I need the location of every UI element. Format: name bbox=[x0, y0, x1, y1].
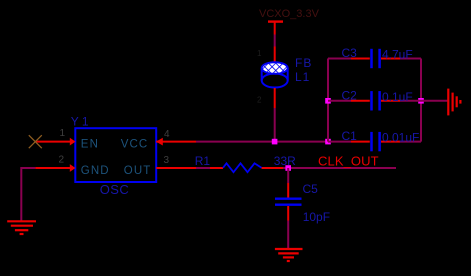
pin 1 arrow bbox=[70, 138, 76, 146]
svg-text:OSC: OSC bbox=[100, 182, 129, 197]
svg-text:VCC: VCC bbox=[121, 139, 149, 151]
wire cap left bus bbox=[327, 59, 329, 142]
svg-text:4: 4 bbox=[164, 129, 170, 140]
wire junction to C5 bbox=[287, 168, 289, 183]
power bar symbol bbox=[268, 20, 283, 22]
svg-text:CLK_OUT: CLK_OUT bbox=[318, 154, 379, 169]
svg-text:0.1uF: 0.1uF bbox=[382, 90, 413, 104]
svg-text:GND: GND bbox=[81, 165, 110, 177]
pin 1 EN bbox=[35, 141, 70, 143]
svg-text:3: 3 bbox=[164, 155, 170, 166]
wire C3 row bbox=[328, 58, 351, 60]
pin 2 GND bbox=[35, 167, 70, 169]
capacitor C2 plates bbox=[370, 91, 373, 110]
capacitor C3 plates bbox=[370, 49, 373, 68]
junction at cap bus bottom bbox=[325, 139, 331, 145]
wire GND pin to ground bbox=[21, 168, 35, 221]
wire C2 row bbox=[328, 100, 351, 102]
wire L1 to VCC net bbox=[274, 108, 276, 142]
pin 3 OUT bbox=[156, 167, 196, 169]
svg-text:FB: FB bbox=[295, 56, 312, 70]
junction right bus C2 bbox=[418, 98, 424, 104]
wire VCC net horizontal bbox=[196, 141, 328, 143]
svg-text:L1: L1 bbox=[295, 70, 310, 84]
capacitor C1 plates bbox=[370, 132, 373, 151]
capacitor C2 pins bbox=[351, 100, 370, 102]
capacitor C3 pins bbox=[351, 58, 370, 60]
svg-text:0.01uF: 0.01uF bbox=[382, 131, 419, 145]
svg-text:33R: 33R bbox=[274, 154, 296, 168]
wire power to L1 bbox=[274, 35, 276, 47]
capacitor C5 pins bbox=[287, 183, 289, 198]
pin 4 VCC bbox=[156, 141, 196, 143]
ferrite bead L1 body bbox=[262, 62, 288, 87]
svg-text:OUT: OUT bbox=[124, 165, 152, 177]
svg-text:C3: C3 bbox=[342, 46, 358, 60]
junction at C5 bbox=[285, 165, 291, 171]
capacitor C5 plates bbox=[275, 198, 302, 200]
wire C5 to ground bbox=[287, 221, 289, 249]
ground symbol left bbox=[7, 221, 36, 234]
svg-text:1: 1 bbox=[257, 49, 262, 58]
pin 2 of L1 bbox=[274, 88, 276, 108]
svg-text:2: 2 bbox=[257, 96, 262, 105]
svg-text:EN: EN bbox=[81, 139, 99, 151]
wire C1 row bbox=[328, 141, 351, 143]
svg-text:1: 1 bbox=[60, 128, 66, 139]
wire C2 row to right ground bbox=[421, 100, 448, 102]
wire OUT to R1 bbox=[196, 167, 210, 169]
capacitor C1 pins bbox=[351, 141, 370, 143]
svg-text:10pF: 10pF bbox=[303, 210, 330, 224]
wire R1 to CLK_OUT bbox=[283, 167, 396, 169]
resistor R1 pins bbox=[210, 167, 223, 169]
ground symbol bottom bbox=[275, 249, 303, 261]
svg-text:C2: C2 bbox=[342, 88, 358, 102]
svg-text:Y 1: Y 1 bbox=[71, 115, 89, 129]
svg-text:VCXO_3.3V: VCXO_3.3V bbox=[259, 8, 320, 20]
pin 1 of L1 bbox=[274, 47, 276, 64]
svg-text:R1: R1 bbox=[195, 154, 211, 168]
pin 2 arrow bbox=[70, 164, 76, 172]
junction left bus C2 bbox=[325, 98, 331, 104]
ground symbol right bbox=[448, 89, 460, 116]
junction at L1/VCC bbox=[272, 139, 278, 145]
wire cap right bus bbox=[420, 59, 422, 142]
no-ERC marker on EN bbox=[29, 135, 42, 148]
wire power pin bbox=[274, 22, 276, 35]
oscillator U Y1 box bbox=[75, 128, 156, 182]
resistor R1 body bbox=[223, 163, 262, 172]
svg-text:C5: C5 bbox=[303, 182, 319, 196]
svg-text:2: 2 bbox=[59, 154, 65, 165]
svg-text:C1: C1 bbox=[342, 129, 358, 143]
svg-text:4.7uF: 4.7uF bbox=[382, 48, 413, 62]
pin 4 arrow bbox=[156, 138, 163, 146]
